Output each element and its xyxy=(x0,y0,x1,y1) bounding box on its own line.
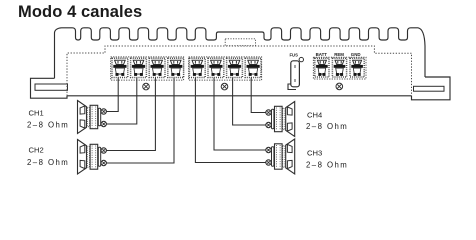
wire: group1 t3 to CH2 + terminal xyxy=(106,78,155,151)
svg-text:2–8 Ohm: 2–8 Ohm xyxy=(306,161,348,170)
power terminal block border xyxy=(313,57,366,79)
wire: group2 t3 to CH4 - terminal xyxy=(233,78,266,126)
wire: group2 t1 to CH3 - terminal xyxy=(195,78,266,163)
svg-text:GND: GND xyxy=(351,52,361,57)
fuse holder body xyxy=(291,61,300,87)
left mounting foot bracket xyxy=(31,78,68,98)
fuse holder knob xyxy=(299,57,303,61)
svg-text:REM: REM xyxy=(334,52,344,57)
speaker CH2 xyxy=(78,140,87,175)
wire: group1 t4 to CH2 - terminal xyxy=(106,78,174,164)
speaker terminal group 1 border xyxy=(111,57,184,80)
speaker terminal group1 t2 xyxy=(131,58,147,77)
amplifier chassis outline with heatsink fins xyxy=(55,28,426,79)
screw between group2 terminals xyxy=(221,83,228,90)
speaker terminal group2 t4 xyxy=(245,58,261,77)
screw below power block xyxy=(336,83,343,90)
speaker CH1 xyxy=(78,101,87,134)
speaker terminal group 2 border xyxy=(189,57,262,80)
wire: group2 t2 to CH3 + terminal xyxy=(214,78,266,151)
right mounting foot bracket xyxy=(412,77,451,100)
right foot slot xyxy=(414,86,445,91)
svg-text:2–8 Ohm: 2–8 Ohm xyxy=(27,120,69,129)
fuse holder foot xyxy=(288,84,296,90)
svg-text:2–8 Ohm: 2–8 Ohm xyxy=(27,158,69,167)
amplifier bottom edge xyxy=(67,95,412,97)
svg-text:CH4: CH4 xyxy=(307,110,322,119)
svg-text:CH3: CH3 xyxy=(307,148,322,157)
screw between group1 terminals xyxy=(143,83,150,90)
top handle box under bridge xyxy=(225,39,255,46)
svg-text:CH1: CH1 xyxy=(29,109,44,118)
speaker CH4 xyxy=(286,102,295,137)
svg-text:BATT: BATT xyxy=(316,52,328,57)
wire: group2 t4 to CH4 + terminal xyxy=(251,78,266,113)
svg-text:FUS: FUS xyxy=(290,53,299,58)
power terminal BATT xyxy=(315,58,329,77)
speaker CH3 xyxy=(286,139,295,174)
speaker terminal group1 t4 xyxy=(168,58,184,77)
speaker terminal group2 t3 xyxy=(227,58,243,77)
speaker terminal group2 t1 xyxy=(189,58,205,77)
left foot slot xyxy=(35,84,68,90)
power terminal REM xyxy=(332,58,346,77)
speaker terminal group1 t1 xyxy=(112,58,128,77)
wire: group1 t1 to CH1 + terminal xyxy=(106,78,118,112)
speaker terminal group1 t3 xyxy=(149,58,165,77)
speaker terminal group2 t2 xyxy=(208,58,224,77)
wire: group1 t2 to CH1 - terminal xyxy=(106,78,136,125)
svg-text:Modo 4 canales: Modo 4 canales xyxy=(18,3,142,21)
power terminal GND xyxy=(350,58,364,77)
svg-text:2–8 Ohm: 2–8 Ohm xyxy=(306,122,348,131)
recessed terminal panel (dotted outline) xyxy=(67,46,412,96)
svg-text:CH2: CH2 xyxy=(29,145,44,154)
